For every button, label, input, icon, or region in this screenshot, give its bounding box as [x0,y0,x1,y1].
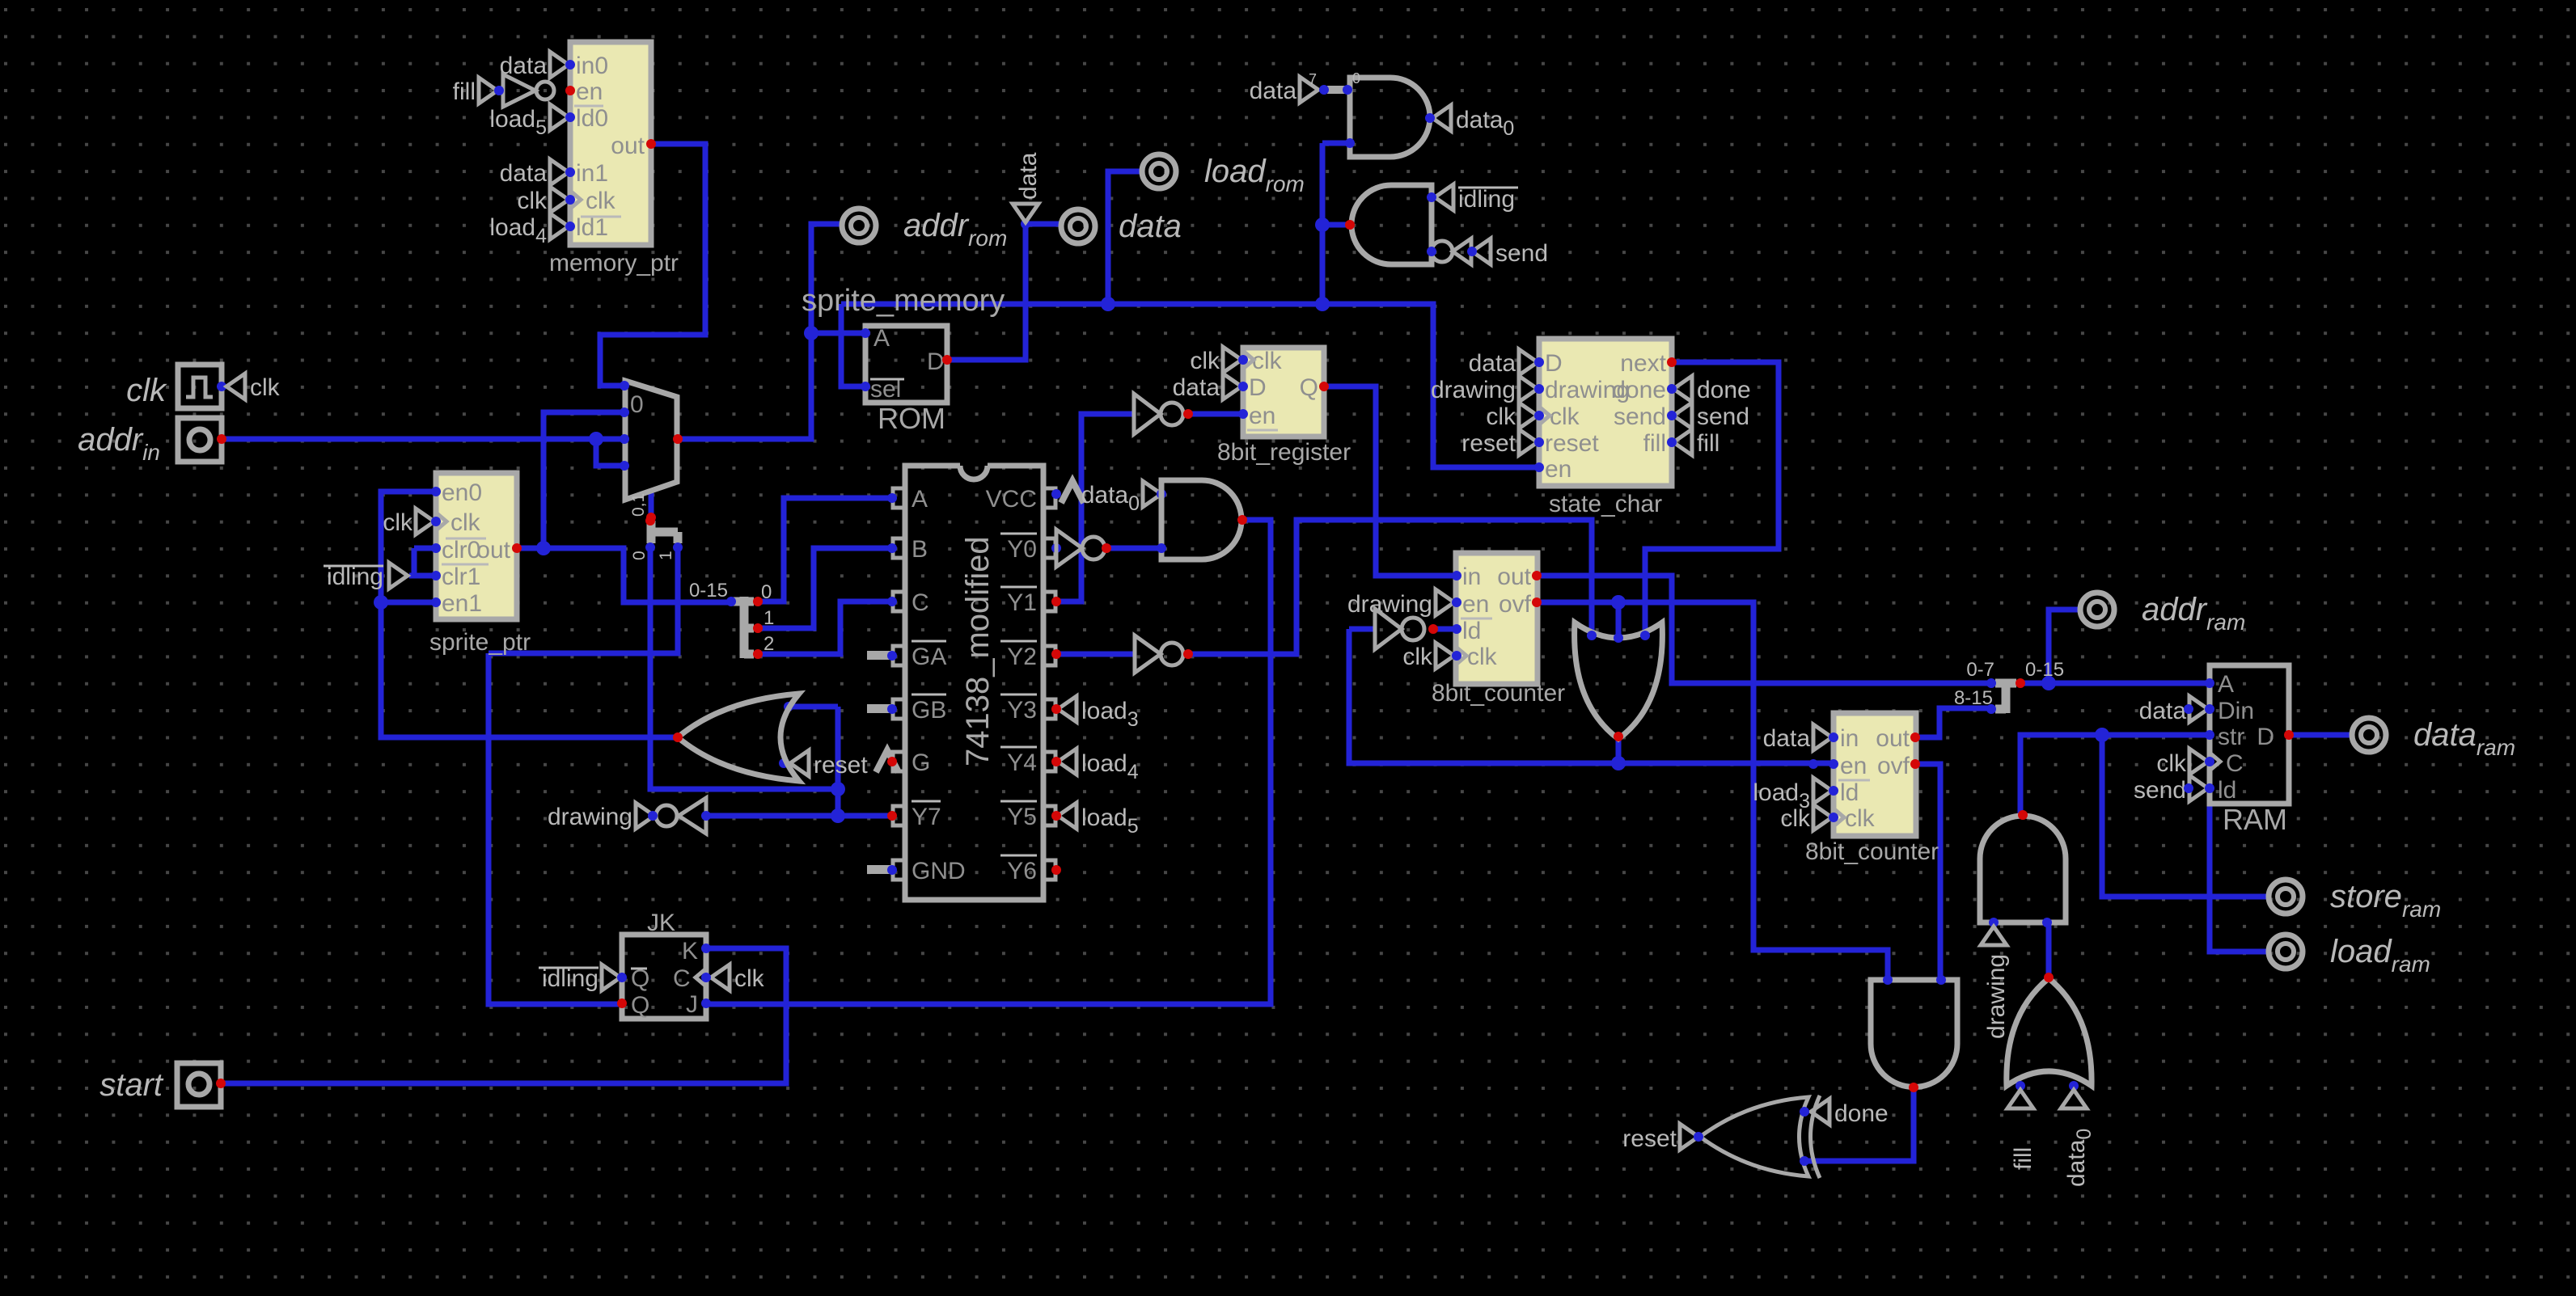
wire and-up out to RAM str and store_ram pin [2020,735,2269,897]
svg-text:A: A [912,486,928,513]
tunnel idling (G2 input) [1435,184,1453,210]
node junction ovf1 / or-down [1611,595,1626,610]
svg-text:next: next [1620,350,1666,377]
svg-text:clk: clk [1486,403,1516,430]
svg-text:in: in [1462,564,1481,590]
svg-text:J: J [686,991,698,1018]
svg-text:C: C [673,965,691,992]
svg-text:clk: clk [1780,805,1811,832]
node junction addr_in split [589,432,603,446]
tunnel clk (register) [1223,347,1241,373]
svg-text:en: en [1840,753,1867,779]
pin dots 8bit_counter U6 [1452,571,1461,580]
AND gate G4 (data0 & !Y0) [1161,480,1241,559]
svg-text:Y2: Y2 [1007,644,1037,670]
svg-text:send: send [1495,240,1548,267]
splitter SP2 (0-15 to bits 0,1,2) [731,597,754,658]
svg-text:en: en [1462,591,1489,618]
wire Y2 inverter out to or-down input1 [1188,520,1592,654]
svg-text:B: B [912,536,928,563]
svg-text:done: done [1697,377,1751,403]
svg-text:out: out [476,537,510,564]
node junction addr_ram tap [2041,676,2056,690]
wire branch to load_rom pin [1108,171,1142,304]
svg-text:clk: clk [450,509,481,536]
tunnel fill (G12 input) [2007,1090,2033,1108]
wire splitter bit1 to 74138 B [758,548,894,628]
svg-text:Y7: Y7 [912,804,941,830]
svg-text:clk: clk [383,509,413,536]
svg-text:ld: ld [2218,777,2236,804]
wire ovf1 to or-down mid input [1616,602,1622,639]
svg-text:sprite_memory: sprite_memory [802,284,1005,318]
subcircuit memory_ptr U1 [570,42,651,245]
svg-text:en1: en1 [442,590,482,617]
svg-text:Din: Din [2218,698,2254,724]
ROM U9 [865,326,947,403]
tunnel data (in1) [550,159,569,185]
wire Y1 to inverter for register en [1053,414,1134,602]
node JK Q [617,998,627,1008]
tunnel data (register D) [1223,374,1241,399]
tunnel load5 (ld0) [550,104,569,130]
tunnel data (memory_ptr in0) [550,52,569,78]
inverted input bubble + send tunnels (G2) [1432,241,1453,262]
wire or-down out / en net to counter2 en [1349,629,1833,763]
tunnel clk (JK C) [711,965,730,990]
wire data bit7 column to and/and gates [1322,143,1350,304]
svg-text:D: D [1249,374,1267,401]
svg-text:clk: clk [1550,403,1580,430]
node junction store_ram tap [2095,728,2109,742]
subcircuit sprite_ptr U2 [436,473,517,619]
output pin load_ram [2269,935,2303,969]
svg-text:0-15: 0-15 [2025,659,2064,681]
tunnel clk (counter2) [1813,804,1832,830]
multiplexer MUX1 [625,381,677,500]
OR gate G12 north (fill | data0) [2007,978,2092,1086]
svg-text:fill: fill [453,78,476,105]
tunnel load4 (ld1) [550,213,569,239]
svg-text:out: out [1497,564,1531,590]
svg-text:Y5: Y5 [1007,804,1037,830]
svg-text:in: in [1840,725,1859,752]
RAM U10 [2210,665,2289,804]
svg-text:out: out [1876,725,1910,752]
svg-text:fill: fill [1697,430,1719,457]
svg-text:G: G [912,749,930,776]
svg-text:ld0: ld0 [576,105,608,132]
tunnel done (G10 input) [1811,1099,1829,1125]
wire splitter bit0 to 74138 A [758,498,894,602]
svg-text:in0: in0 [576,53,608,79]
wire state_char next to or-down input3 [1645,362,1779,639]
svg-text:en: en [576,78,603,105]
svg-text:1: 1 [763,607,774,629]
tunnel clk [550,187,569,213]
svg-text:Y4: Y4 [1007,749,1037,776]
svg-text:drawing: drawing [1347,591,1432,618]
input pin addr_in [178,418,222,462]
node junction or-down output [1611,756,1626,770]
tunnel clk (RAM C) [2189,749,2208,775]
svg-text:data: data [1015,152,1042,200]
tunnel data (RAM Din) [2189,696,2208,722]
tunnel drawing (state_char) [1519,376,1538,402]
inverter U7 at counter1 ld [1375,609,1402,649]
wire addr_in to mux in2/in3 [222,439,624,466]
svg-text:VCC: VCC [986,486,1037,513]
pin dots 74138 [887,493,897,503]
tunnel idling (clr) [389,563,408,589]
wire reset-or output to sprite_ptr en0/en1 [381,492,678,737]
pin dots state_char [1534,357,1544,367]
tunnel load3 (counter2 ld) [1813,778,1832,804]
wire RAM D to data_ram pin [2289,732,2352,738]
wire sprite_ptr out to splitter 0-15 and mux in1 [517,412,731,602]
wire ROM D to data pin [947,224,1061,360]
node junction Y7 net a [831,782,845,796]
node memory_ptr en [565,86,575,95]
wire mux out to addr_rom pin and ROM A [678,224,865,439]
output pin addr_rom [842,209,876,243]
svg-text:ld1: ld1 [576,214,608,241]
wire start to JK K [221,948,786,1083]
svg-text:data: data [500,160,548,187]
tunnel fill + inverter to en [479,78,497,103]
svg-text:A: A [2218,671,2234,698]
wire register Q to counter1 in [1324,386,1457,576]
svg-text:0: 0 [630,391,644,418]
svg-text:8bit_register: 8bit_register [1217,439,1351,466]
svg-text:reset: reset [1545,430,1599,457]
tunnel load4 (Y4) [1058,749,1077,775]
subcircuit 8bit_register U3 [1243,348,1324,437]
svg-text:ovf: ovf [1499,591,1532,618]
inverter U4 at register en [1134,394,1161,434]
tunnel idling (JK Qb) [602,965,620,990]
wire and(data0,!Y0) out to JK J [706,520,1271,1004]
svg-text:en0: en0 [442,479,482,506]
tunnel send (RAM ld) [2189,775,2208,801]
svg-text:K: K [682,938,698,965]
svg-text:0-15: 0-15 [689,580,728,602]
constant 0 at GND [867,865,891,874]
output pin dots 74138 Y [887,757,897,766]
wire JK Q to mux-select splitter bit1 [489,547,678,1004]
output pin data_ram [2352,718,2386,752]
wire or-up out to and-up input [2046,922,2052,977]
node junction en0/en1 [374,595,388,610]
svg-text:reset: reset [814,752,868,779]
XOR gate G10 mirrored (reset/done) [1700,1097,1808,1176]
tunnel reset (state_char) [1519,429,1538,455]
node junction Y7 net b [831,808,845,823]
svg-text:send: send [1697,403,1749,430]
svg-text:reset: reset [1622,1125,1677,1152]
svg-text:en: en [1249,403,1275,429]
tunnel clk (input pin) [226,374,245,399]
svg-text:clk: clk [517,188,548,214]
tunnel clk (sprite_ptr) [416,509,434,534]
wire counter1 out to splitter 0-7 [1537,576,1991,683]
svg-text:idling: idling [1458,186,1515,213]
svg-text:drawing: drawing [1431,377,1516,403]
svg-text:clk: clk [250,374,281,401]
pin dots 8bit_counter U8 [1829,732,1838,742]
svg-text:data: data [1250,78,1297,104]
wire mux select stub [649,491,654,517]
svg-text:JK: JK [647,910,675,936]
tunnel drawing (G6 out) [636,803,654,829]
pin dots ROM [861,328,870,338]
svg-text:ld: ld [1840,779,1859,806]
svg-text:drawing: drawing [548,804,632,830]
tunnel clk (state_char) [1519,403,1538,428]
svg-text:idling: idling [542,965,599,992]
subcircuit 8bit_counter U6 [1456,553,1538,684]
svg-text:en: en [1545,456,1571,483]
splitter SP3 (0-7,8-15 to 0-15) [1995,679,2016,713]
constant 0 at GA [867,651,891,660]
pin dots JK [701,944,711,953]
OR gate G8 south (or-down) [1575,623,1663,739]
inverter G5 at Y2 [1135,635,1161,673]
svg-text:data: data [1763,725,1811,752]
AND gate G1 (data bit7) [1350,78,1430,157]
tunnel load3 (Y3) [1058,696,1077,722]
svg-text:clk: clk [2156,750,2187,777]
node junction addr bus at ROM A [804,326,818,340]
constant 0 at GB [867,704,891,713]
node counter1 out [1532,571,1542,580]
wire memory_ptr out to mux in0 [600,144,705,386]
wire splitter 0-15 to RAM A and addr_ram pin [2020,610,2210,683]
svg-text:C: C [912,589,929,616]
subcircuit state_char U5 [1539,339,1672,486]
node sprite_ptr out [512,543,522,553]
node junction sprite_ptr out [536,541,551,555]
wire counter2 ovf to and-down input2 [1916,764,1940,980]
svg-text:GND: GND [912,858,966,884]
subcircuit 8bit_counter U8 [1834,713,1916,836]
svg-text:8bit_counter: 8bit_counter [1432,680,1565,707]
node inverter U4 out [1183,409,1193,419]
svg-text:clk: clk [1252,348,1283,374]
svg-text:data: data [1173,374,1220,401]
svg-text:0-7: 0-7 [1966,659,1994,681]
tunnel data0 (G12 input) [2061,1090,2087,1108]
node inverter U7 out [1428,624,1438,634]
svg-text:fill: fill [2010,1147,2037,1170]
svg-text:start: start [99,1067,164,1103]
tunnel data (counter2 in) [1813,724,1832,750]
svg-text:Y3: Y3 [1007,697,1037,724]
svg-text:send: send [2134,777,2186,804]
tunnel data0 (G1 output) [1432,105,1451,131]
wire idling to sprite_ptr clr0/clr1 [409,548,436,576]
svg-text:74138_modified: 74138_modified [960,536,996,766]
svg-text:ROM: ROM [878,402,945,435]
node junction load bus / load_rom [1101,297,1115,311]
svg-text:clk: clk [126,373,167,408]
tunnel data0 (to AND) [1143,481,1161,507]
wire bus to ROM sel [841,304,865,386]
svg-text:idling: idling [327,564,383,590]
tunnel reset (G10 out) [1680,1124,1698,1150]
svg-text:clk: clk [586,188,616,214]
svg-text:clk: clk [1190,348,1220,374]
svg-text:ovf: ovf [1877,753,1910,779]
pin dots 8bit_register [1238,355,1248,365]
pin dots sprite_ptr [431,487,441,496]
JK flip-flop U12 [622,935,706,1019]
svg-text:state_char: state_char [1549,491,1662,517]
node counter2 ovf [1910,759,1920,769]
tunnel data + bit splitter at G1 input [1300,77,1318,103]
svg-text:0: 0 [761,581,772,603]
AND gate G11 north (store) [1980,816,2066,922]
output pin addr_ram [2080,593,2114,627]
svg-text:2: 2 [763,633,774,655]
svg-text:clr0: clr0 [442,537,480,564]
tunnel drawing (counter1 en) [1436,589,1454,615]
splitter SP1 (mux select 2bit) [651,521,678,543]
wire counter1 ovf to and-down input1 [1538,602,1888,980]
node RAM D [2284,730,2294,740]
pin dots RAM [2205,678,2214,688]
svg-text:clk: clk [1845,805,1876,832]
node counter1 ovf [1532,597,1542,607]
tunnel done (state_char) [1673,376,1692,402]
svg-text:C: C [2226,750,2244,777]
wire splitter bit2 to 74138 C [758,602,894,654]
node counter2 out [1910,732,1920,742]
tunnel clk (counter1) [1436,643,1454,669]
wire Y7 net: splitter bit0 / or input / drawing-not / Y7 pin [650,547,892,816]
svg-text:Y0: Y0 [1007,536,1037,563]
svg-text:done: done [1834,1100,1889,1127]
tunnel drawing (G11 input) [1981,927,2007,945]
tunnel data (state_char D) [1519,349,1538,375]
svg-text:memory_ptr: memory_ptr [549,250,679,277]
svg-text:0,1: 0,1 [629,493,648,517]
svg-text:8bit_counter: 8bit_counter [1805,838,1939,865]
wire Y2 to inverter [1053,652,1135,657]
svg-text:D: D [927,348,945,375]
svg-text:fill: fill [1643,430,1666,457]
node memory_ptr out [646,139,656,149]
wire counter2 out to splitter 8-15 [1916,708,1991,737]
node ROM D [942,355,952,365]
tunnel load5 (Y5) [1058,803,1077,829]
svg-text:str: str [2218,724,2244,750]
svg-text:clk: clk [1402,644,1433,670]
tunnel reset (OR input) [790,750,809,776]
wire RAM ld to load_ram pin [2210,788,2269,952]
svg-text:clk: clk [1467,644,1498,670]
svg-text:data: data [2139,698,2187,724]
svg-text:Q: Q [631,992,649,1019]
wire inverter at counter1 ld [1349,627,1457,632]
svg-text:D: D [2257,724,2274,750]
svg-text:Y6: Y6 [1007,858,1037,884]
wire load bus to state_char en [841,304,1539,467]
svg-text:GA: GA [912,644,946,670]
OR gate G7 mirrored (reset or) [678,694,799,781]
AND gate G9 south (ovf & ovf) [1871,980,1957,1087]
input pin clk [178,365,222,408]
inverter G6 (drawing, mirrored) [679,798,706,834]
svg-text:drawing: drawing [1983,954,2010,1039]
svg-text:out: out [611,133,645,159]
wire and-down out to xor input [1804,1087,1914,1161]
svg-text:A: A [873,325,890,352]
svg-text:0: 0 [630,551,649,560]
node register Q [1319,382,1329,391]
node state_char next [1667,357,1677,367]
svg-text:reset: reset [1461,430,1516,457]
svg-text:sprite_ptr: sprite_ptr [429,629,531,656]
svg-text:0: 0 [1352,70,1360,87]
node junction and2 output [1315,217,1330,232]
svg-text:clk: clk [734,965,765,992]
inverter G3 at Y0 [1056,530,1082,567]
svg-text:RAM: RAM [2223,803,2287,836]
IC 74138_modified U11 [960,466,988,479]
tunnel data (vertical, at data pin) [1013,204,1038,222]
output pin load_rom [1142,154,1176,188]
svg-text:clr1: clr1 [442,564,480,590]
svg-text:1: 1 [657,551,675,560]
svg-text:D: D [1545,350,1563,377]
pin dots memory_ptr [565,60,575,70]
output pin store_ram [2269,880,2303,914]
wire inverter out to register en [1188,412,1243,417]
svg-text:in1: in1 [576,160,608,187]
wire Y0 inverter out to and gate [1106,546,1161,551]
svg-text:Y1: Y1 [1007,589,1037,616]
svg-text:GB: GB [912,697,946,724]
power arrow at G [876,750,899,772]
node junction load bus / gate column [1315,297,1330,311]
svg-text:data: data [1469,350,1516,377]
svg-text:send: send [1614,403,1666,430]
tunnel fill (state_char) [1673,429,1692,455]
output pin data [1061,209,1095,243]
svg-text:Q: Q [1300,374,1318,401]
AND gate G2 mirrored (idling/send) [1351,185,1432,264]
svg-text:7: 7 [1309,71,1317,87]
svg-text:done: done [1612,377,1666,403]
tunnel send (state_char) [1673,403,1692,428]
svg-text:data: data [1119,209,1182,244]
power arrow at VCC [1061,481,1084,503]
svg-text:ld: ld [1462,618,1481,644]
svg-text:8-15: 8-15 [1954,687,1993,709]
input pin start [177,1063,221,1107]
